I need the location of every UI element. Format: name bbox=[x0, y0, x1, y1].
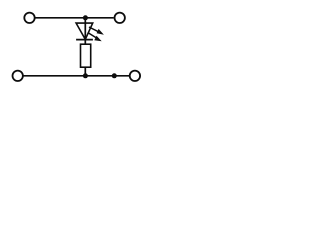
terminal bottom-right bbox=[130, 71, 140, 81]
node bottom junction right bbox=[112, 73, 117, 78]
LED D1 triangle (anode top, cathode down) bbox=[76, 23, 93, 39]
node top junction bbox=[83, 15, 88, 20]
LED D1 cathode bar bbox=[76, 39, 93, 41]
wire top rail bbox=[35, 17, 114, 19]
terminal bottom-left bbox=[13, 71, 23, 81]
terminal top-right bbox=[115, 13, 125, 23]
wire bottom rail bbox=[23, 75, 129, 77]
terminal top-left bbox=[24, 13, 34, 23]
node bottom junction at resistor bbox=[83, 73, 88, 78]
resistor R1 bbox=[81, 44, 91, 67]
wire LED branch vertical bbox=[84, 18, 86, 45]
LED D1 emission arrow 2 bbox=[88, 33, 102, 42]
wire resistor to bottom rail bbox=[84, 67, 86, 76]
LED D1 emission arrow 1 bbox=[89, 27, 104, 35]
